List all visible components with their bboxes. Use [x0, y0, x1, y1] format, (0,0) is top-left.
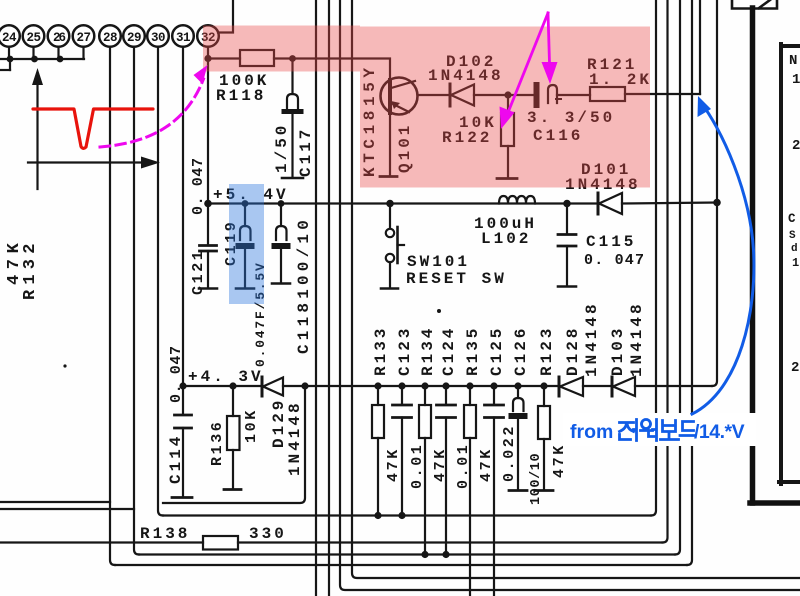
- svg-text:2: 2: [791, 360, 799, 376]
- node pin31/C114 junction: [179, 382, 186, 389]
- wire pin 32 down to +5.4V rail: [207, 47, 209, 204]
- svg-text:C125: C125: [488, 326, 506, 376]
- node R123 junction: [540, 382, 547, 389]
- node R133 bottom junction: [374, 512, 381, 519]
- svg-text:29: 29: [127, 31, 141, 45]
- svg-text:1N4148: 1N4148: [583, 301, 601, 377]
- node C126 junction: [514, 382, 521, 389]
- wire +4.3V rail: [183, 385, 261, 387]
- node pin32 / R118 input junction: [204, 55, 211, 62]
- connector pin 25: [23, 25, 45, 59]
- connector pin 29: [123, 25, 145, 47]
- capacitor C124 0.01: [437, 326, 473, 555]
- svg-text:/14.*V: /14.*V: [694, 421, 745, 443]
- wire +5.4V rail: [208, 202, 597, 204]
- wire E pin29 bottom run: [139, 553, 675, 555]
- connector pin 28: [99, 25, 121, 47]
- wire center bus vertical 4 bends to bottom wire G: [352, 0, 800, 578]
- wire F pin28 bottom run: [115, 564, 687, 566]
- inductor L102 100uH: [474, 196, 537, 248]
- connector pin 27: [73, 25, 95, 59]
- wire W2 pin30 bottom run: [163, 514, 651, 516]
- wire right group vertical bus B bends to R138 wire: [663, 0, 668, 543]
- svg-text:R134: R134: [419, 326, 437, 376]
- svg-text:10K: 10K: [243, 408, 260, 443]
- wire pin 30 vertical drop: [158, 47, 163, 516]
- node R134 junction: [421, 382, 428, 389]
- svg-text:R133: R133: [372, 326, 390, 376]
- svg-text:S: S: [789, 230, 796, 242]
- node R134 bottom junction: [421, 551, 428, 558]
- junction dots under pins 24 25 26: [7, 56, 64, 63]
- top right partial box: [732, 0, 777, 9]
- magenta arrow at R122: [500, 13, 549, 129]
- wire pin 31 vertical drop to +4.3V rail: [182, 47, 184, 386]
- svg-text:C117: C117: [297, 127, 315, 177]
- node return wire junction: [301, 382, 308, 389]
- waveform red pulse: [33, 109, 153, 148]
- node D102/R122/C116 junction: [504, 91, 511, 98]
- wire B from left edge: [0, 508, 134, 510]
- blue annotation text from power board 14V: [570, 421, 745, 443]
- svg-text:from: from: [570, 421, 613, 443]
- capacitor C119 0.047F/5.5V: [223, 204, 268, 368]
- resistor R121 1.2K: [587, 56, 652, 101]
- svg-text:0. 047: 0. 047: [584, 252, 645, 269]
- connector pin 31: [172, 25, 194, 47]
- svg-text:28: 28: [103, 31, 117, 45]
- diode D128 1N4148: [559, 301, 601, 396]
- wire return loop down-left: [163, 386, 305, 503]
- node C123 bottom junction: [398, 512, 405, 519]
- svg-text:R118: R118: [216, 87, 266, 105]
- blue annotation text background: [563, 413, 756, 446]
- capacitor C118 100/10: [272, 204, 313, 355]
- magenta dashed arrow to node 32: [100, 65, 208, 147]
- node C117 junction: [289, 55, 296, 62]
- node C125 junction: [490, 382, 497, 389]
- node C115 junction: [563, 200, 571, 208]
- svg-text:R138: R138: [140, 525, 190, 543]
- wire R138 net from left edge: [0, 541, 203, 543]
- highlight pink region main block: [360, 27, 650, 188]
- wire center bus vertical 1: [315, 0, 317, 596]
- wire right vertical to D101/D103 rails: [712, 0, 717, 386]
- capacitor C123 0.01: [393, 326, 427, 516]
- node C124 bottom junction: [442, 551, 449, 558]
- svg-text:0.022: 0.022: [501, 424, 518, 482]
- wire A from left edge: [0, 501, 110, 503]
- wire D128 to D103: [583, 385, 612, 387]
- wire pin 32 to top edge: [218, 0, 233, 33]
- svg-text:SW101: SW101: [407, 253, 470, 271]
- node C119 junction: [242, 200, 249, 207]
- connector pin 32: [197, 25, 219, 47]
- svg-text:0.01: 0.01: [409, 443, 426, 489]
- diode D101 1N4148: [565, 161, 717, 214]
- svg-text:1/50: 1/50: [273, 123, 291, 173]
- wire center bus vertical 2: [328, 0, 330, 596]
- svg-text:100/10: 100/10: [529, 453, 544, 505]
- svg-text:R132: R132: [21, 238, 40, 300]
- svg-text:1: 1: [792, 72, 800, 88]
- svg-text:47K: 47K: [478, 447, 495, 482]
- svg-text:1N4148: 1N4148: [628, 301, 646, 377]
- resistor R133 47K: [372, 326, 402, 516]
- node C124 junction: [442, 382, 449, 389]
- capacitor C126 100/10: [509, 326, 544, 505]
- node SW101 junction: [386, 200, 394, 208]
- node C121 junction: [204, 200, 212, 208]
- capacitor C121 0.047: [190, 157, 217, 295]
- wire R121 to 14V feed line: [625, 93, 700, 95]
- svg-text:0. 047: 0. 047: [190, 157, 207, 215]
- wire right group vertical bus A bends to wire W2: [651, 0, 656, 516]
- svg-text:26: 26: [53, 31, 66, 45]
- right board box: [779, 44, 800, 484]
- svg-text:1: 1: [792, 256, 799, 270]
- svg-text:D103: D103: [609, 326, 627, 376]
- wire pin 29 vertical drop: [134, 47, 139, 555]
- resistor R134 47K: [419, 326, 449, 555]
- svg-text:25: 25: [26, 31, 40, 45]
- speck dots: [63, 309, 441, 368]
- svg-text:+4. 3V: +4. 3V: [188, 368, 264, 386]
- wire right group vertical bus C bends to wire E: [675, 0, 680, 555]
- svg-text:C118100/10: C118100/10: [295, 216, 313, 354]
- svg-text:330: 330: [249, 525, 287, 543]
- capacitor C114 0.047: [167, 345, 192, 497]
- wire main top net to R118: [208, 57, 240, 59]
- connector pin 26: [48, 25, 70, 59]
- wire bus under pins 24-27: [0, 59, 84, 70]
- transistor Q101 KTC1815Y: [361, 63, 418, 177]
- svg-text:R135: R135: [464, 326, 482, 376]
- connector pin 30: [147, 25, 169, 47]
- connector pin 24: [0, 25, 20, 59]
- node C123 junction: [398, 382, 405, 389]
- svg-text:d: d: [791, 243, 798, 255]
- right box pin text: [788, 53, 800, 376]
- svg-text:30: 30: [151, 31, 165, 45]
- node C118 junction: [278, 200, 285, 207]
- highlight blue region C119: [229, 184, 264, 304]
- node R135 junction: [466, 382, 473, 389]
- waveform axes: [28, 68, 160, 189]
- capacitor C125 0.022: [485, 326, 519, 596]
- highlight pink region upper band: [203, 26, 360, 72]
- svg-text:D128: D128: [564, 326, 582, 376]
- svg-text:47K: 47K: [551, 443, 568, 478]
- diode D103 1N4148: [609, 301, 646, 396]
- node R133 junction: [374, 382, 381, 389]
- resistor R123 47K: [535, 326, 568, 491]
- svg-text:31: 31: [176, 31, 190, 45]
- wire D103 rail to right corner: [635, 385, 712, 387]
- svg-text:C: C: [788, 212, 796, 226]
- svg-text:C126: C126: [512, 326, 530, 376]
- svg-text:24: 24: [2, 31, 17, 45]
- svg-text:C115: C115: [586, 233, 636, 251]
- resistor R138 330: [140, 525, 663, 550]
- capacitor C117 1/50: [273, 59, 315, 179]
- svg-text:R123: R123: [538, 326, 556, 376]
- resistor R136 10K: [209, 386, 260, 490]
- wire pin 28 vertical drop to bottom: [110, 47, 115, 565]
- svg-text:0. 047: 0. 047: [168, 345, 185, 403]
- resistor R122 10K: [442, 95, 517, 179]
- resistor R118 100K: [216, 50, 293, 105]
- thick board border L: [750, 8, 800, 503]
- magenta arrow at C116: [542, 13, 558, 84]
- capacitor C116 3.3/50: [508, 85, 615, 145]
- svg-text:C123: C123: [396, 326, 414, 376]
- wire right group vertical feed 14V (short, from top edge): [699, 0, 701, 94]
- label 47K R132: [5, 238, 40, 300]
- wire right group vertical bus D bends to wire F: [687, 0, 692, 565]
- node R136 junction: [229, 382, 236, 389]
- wire Q101 emitter to D102: [418, 94, 450, 96]
- blue curved arrow to 14V line: [692, 96, 754, 414]
- svg-text:R136: R136: [209, 420, 226, 466]
- svg-text:N: N: [789, 53, 797, 69]
- node D101 wire junction: [713, 199, 721, 207]
- blue Korean glyphs jeon-won-bo-deu: [620, 420, 695, 441]
- switch SW101 RESET SW: [381, 204, 507, 289]
- svg-text:C124: C124: [440, 326, 458, 376]
- capacitor C115 0.047: [558, 204, 645, 287]
- svg-text:C114: C114: [167, 434, 185, 484]
- wire rail D129 to R123 segment: [378, 385, 558, 387]
- svg-text:RESET SW: RESET SW: [406, 270, 507, 288]
- svg-text:2: 2: [792, 138, 800, 154]
- wire R118 to transistor base: [293, 59, 391, 81]
- svg-text:27: 27: [76, 31, 90, 45]
- resistor R135 47K: [464, 326, 495, 596]
- diode D102 1N4148: [428, 53, 508, 106]
- svg-text:47K: 47K: [385, 447, 402, 482]
- svg-text:C121: C121: [190, 249, 207, 295]
- svg-text:1N4148: 1N4148: [286, 400, 304, 476]
- diode D129 1N4148: [262, 377, 378, 476]
- wire center bus vertical 3 bends to bottom wire H: [340, 0, 800, 590]
- svg-text:L102: L102: [481, 230, 531, 248]
